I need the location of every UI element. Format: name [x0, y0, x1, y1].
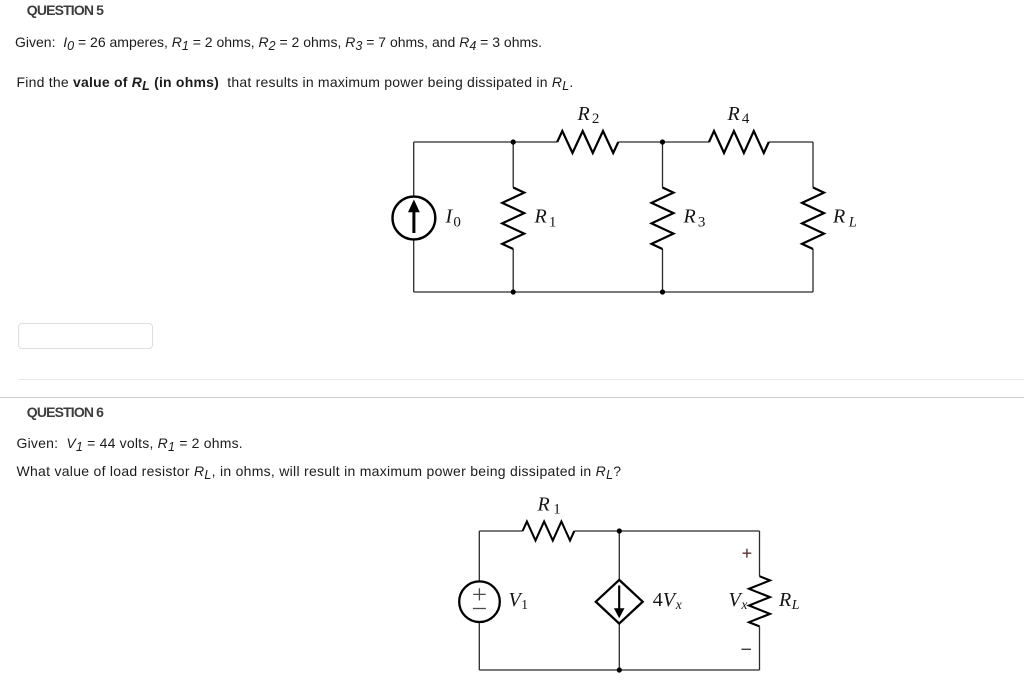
svg-text:V1: V1: [509, 589, 528, 612]
svg-text:R1: R1: [534, 206, 557, 231]
svg-text:RL: RL: [832, 206, 857, 231]
svg-text:4Vx: 4Vx: [653, 589, 682, 612]
svg-text:R2: R2: [577, 103, 600, 127]
svg-text:RL: RL: [778, 589, 800, 613]
svg-text:R1: R1: [537, 494, 561, 518]
svg-text:I0: I0: [445, 206, 461, 231]
svg-text:Vx: Vx: [729, 589, 748, 612]
svg-text:R3: R3: [683, 206, 706, 231]
svg-text:R4: R4: [727, 103, 750, 127]
